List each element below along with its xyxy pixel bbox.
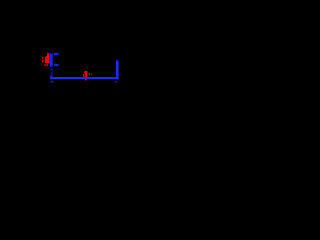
label V1 (red text, left of source): [42, 53, 50, 66]
node dot below source: [51, 69, 53, 71]
source V1 top terminal dash: [54, 53, 60, 55]
resistor R1 label (red, on bottom wire): [83, 71, 92, 81]
wire (bottom horizontal): [50, 77, 118, 79]
artifact tail below right corner: [117, 79, 119, 80]
wire (left vertical into corner): [50, 75, 52, 78]
artifact tail below left corner: [50, 79, 52, 80]
artifact dash below left corner: [51, 81, 54, 83]
wire (faint segment below source): [51, 72, 53, 74]
background: [0, 0, 128, 128]
artifact dash below right corner: [115, 81, 118, 83]
source V1 bottom terminal dash: [54, 64, 60, 66]
source V1 plate (vertical bar): [50, 53, 53, 68]
wire (right vertical): [116, 59, 119, 78]
